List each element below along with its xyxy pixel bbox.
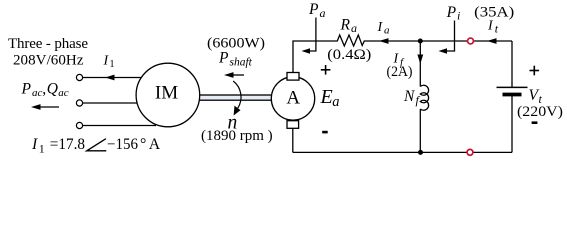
field winding Nf coil — [420, 85, 428, 110]
power arrow Pi (L-shape) — [446, 21, 455, 52]
terminal red top — [468, 38, 474, 44]
dc machine armature A circle — [271, 77, 314, 120]
wire top-left phase lead 1 — [83, 77, 142, 79]
svg-text:(35A): (35A) — [474, 4, 514, 20]
label Pac,Qac arrow head — [31, 104, 41, 110]
shaft — [199, 95, 273, 100]
rotation arrow n head — [234, 106, 241, 116]
svg-text:−156: −156 — [107, 136, 138, 153]
wire middle phase lead 2 — [83, 102, 138, 104]
terminal phase c — [76, 122, 82, 128]
battery Vt long plate — [497, 86, 528, 88]
svg-text:1: 1 — [39, 141, 45, 155]
field branch wire lower — [419, 109, 421, 152]
terminal phase a — [76, 74, 82, 80]
current arrow Ia head — [379, 38, 389, 44]
wire resistor to right corner — [366, 40, 512, 42]
svg-text:208V/60Hz: 208V/60Hz — [13, 53, 84, 69]
label Pshaft arrow shaft power — [230, 74, 244, 76]
label Pshaft arrow head — [224, 72, 234, 78]
current arrow It head — [487, 38, 497, 44]
svg-text:=17.8: =17.8 — [50, 136, 85, 153]
svg-text:(1890 rpm ): (1890 rpm ) — [201, 128, 273, 144]
induction motor IM circle — [136, 63, 200, 127]
wire armature top lead and top bus to corner — [293, 41, 335, 73]
wire bottom phase lead 3 — [83, 125, 156, 127]
power arrow Pa head — [302, 48, 311, 53]
rotation arrow n arc — [233, 81, 241, 108]
battery Vt short plate — [503, 93, 522, 97]
label - battery — [532, 121, 538, 124]
label - armature — [322, 131, 328, 134]
label + battery — [530, 66, 540, 76]
brush bottom — [287, 121, 299, 129]
svg-text:(0.4Ω): (0.4Ω) — [327, 47, 371, 63]
svg-text:I: I — [31, 136, 38, 153]
terminal phase b — [76, 100, 82, 106]
svg-text:A: A — [286, 87, 300, 108]
svg-text:(2A): (2A) — [387, 64, 413, 80]
node junction top (field tap) — [418, 39, 423, 44]
node junction bottom — [418, 150, 423, 155]
svg-text:IM: IM — [155, 82, 178, 103]
wire armature bottom lead — [292, 128, 294, 152]
svg-text:(220V): (220V) — [517, 104, 563, 120]
brush top — [287, 73, 299, 81]
resistor Ra zigzag — [335, 35, 366, 46]
wire right side vertical below battery — [511, 95, 513, 152]
wire right side vertical above battery — [511, 41, 513, 87]
terminal red bottom — [467, 149, 473, 155]
power arrow Pi head — [439, 48, 448, 53]
svg-text:°: ° — [140, 136, 146, 153]
svg-text:Three - phase: Three - phase — [8, 36, 88, 52]
field branch wire upper — [419, 41, 421, 87]
angle symbol — [87, 139, 107, 151]
svg-text:(6600W): (6600W) — [207, 36, 265, 52]
svg-text:A: A — [149, 136, 161, 153]
label + armature — [321, 65, 331, 75]
power arrow Pa (L-shape) — [308, 18, 316, 52]
current arrow I1 head — [105, 75, 115, 81]
wire bottom bus — [293, 151, 512, 153]
current arrow If head — [417, 55, 423, 65]
label Pac,Qac arrow — [37, 106, 59, 108]
